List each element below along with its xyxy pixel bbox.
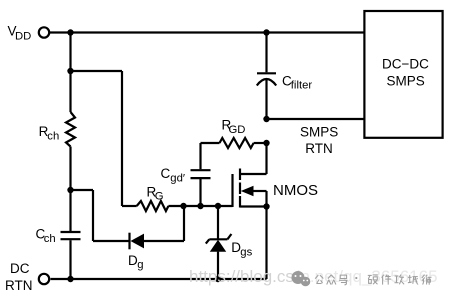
svg-text:g: g [137, 259, 143, 271]
svg-text:RTN: RTN [305, 141, 333, 156]
svg-text:https://blog.cs: https://blog.cs [189, 267, 294, 286]
svg-text:DC: DC [10, 261, 30, 276]
svg-text:filter: filter [291, 79, 313, 91]
svg-text:ch: ch [47, 130, 59, 142]
svg-text:SMPS: SMPS [387, 74, 425, 89]
svg-text:gd′: gd′ [170, 172, 185, 184]
svg-text:ch: ch [44, 233, 56, 245]
svg-text:SMPS: SMPS [300, 124, 338, 139]
svg-text:C: C [161, 166, 171, 181]
svg-text:GD: GD [229, 124, 246, 136]
svg-text:NMOS: NMOS [273, 182, 318, 199]
svg-text:DC−DC: DC−DC [382, 57, 429, 72]
svg-text:G: G [155, 190, 164, 202]
svg-text:RTN: RTN [5, 278, 33, 293]
svg-text:·: · [355, 271, 359, 286]
svg-text:DD: DD [15, 31, 31, 43]
svg-text:gs: gs [240, 246, 252, 258]
